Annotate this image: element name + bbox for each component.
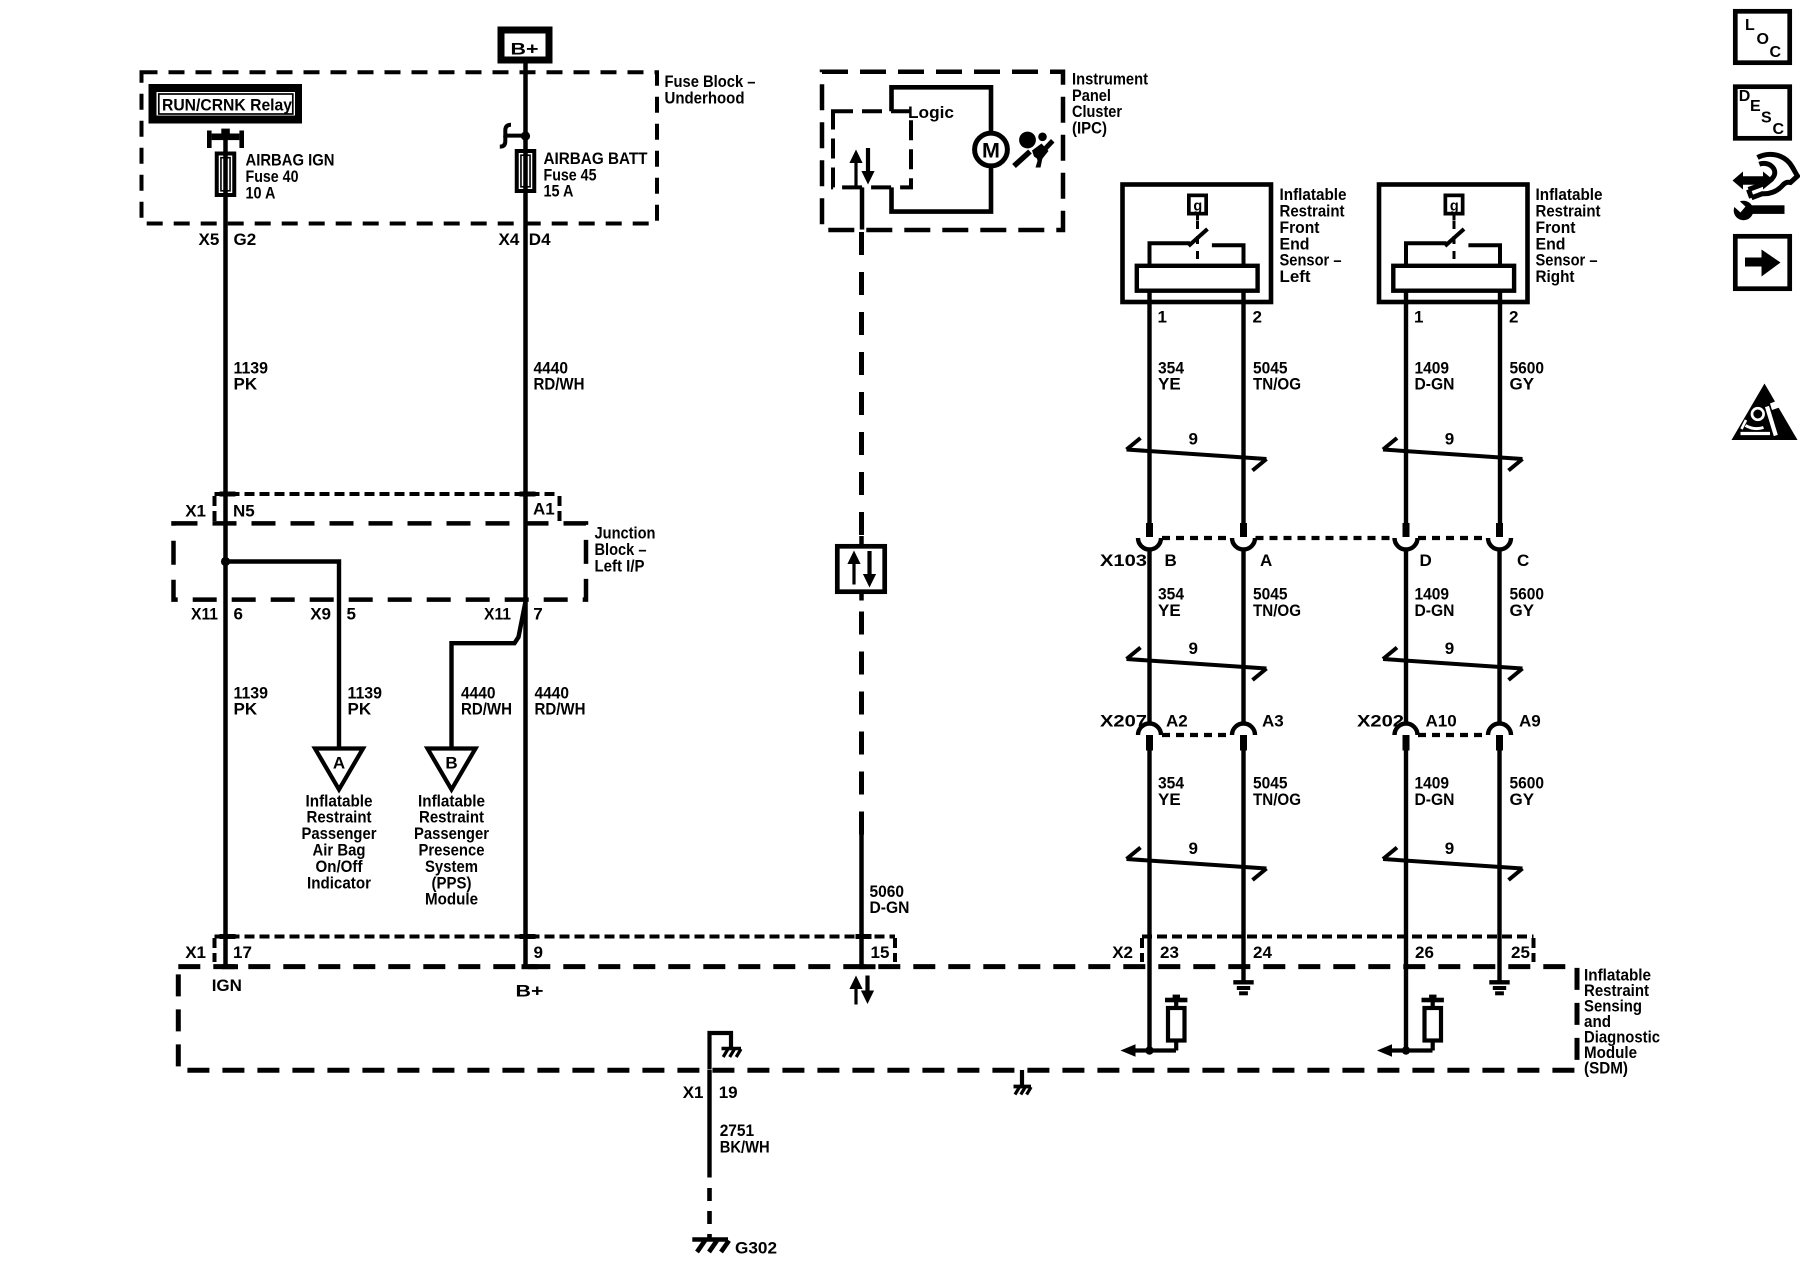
svg-text:26: 26 [1415, 943, 1434, 962]
svg-text:9: 9 [1189, 839, 1198, 858]
svg-text:IGN: IGN [212, 976, 242, 995]
svg-text:O: O [1757, 31, 1769, 48]
svg-text:GY: GY [1510, 601, 1535, 620]
svg-text:9: 9 [1189, 639, 1198, 658]
svg-text:6: 6 [234, 605, 243, 624]
svg-text:G302: G302 [735, 1239, 777, 1258]
svg-text:TN/OG: TN/OG [1253, 375, 1301, 394]
svg-text:X1: X1 [185, 943, 206, 962]
svg-text:D-GN: D-GN [1415, 375, 1455, 394]
svg-text:YE: YE [1158, 601, 1181, 620]
svg-text:A1: A1 [533, 499, 555, 518]
svg-text:X9: X9 [310, 605, 331, 624]
svg-text:X2: X2 [1112, 943, 1133, 962]
svg-text:B: B [1165, 551, 1177, 570]
svg-text:E: E [1750, 98, 1761, 115]
svg-text:1: 1 [1158, 308, 1167, 327]
svg-text:D-GN: D-GN [1415, 790, 1455, 809]
svg-text:YE: YE [1158, 790, 1181, 809]
svg-text:9: 9 [534, 943, 543, 962]
svg-text:D-GN: D-GN [1415, 601, 1455, 620]
svg-text:(SDM): (SDM) [1584, 1059, 1628, 1078]
svg-text:9: 9 [1445, 430, 1454, 449]
svg-text:D: D [1739, 88, 1751, 105]
svg-text:9: 9 [1189, 430, 1198, 449]
svg-text:25: 25 [1511, 943, 1530, 962]
svg-text:X11: X11 [484, 605, 511, 624]
svg-text:2: 2 [1509, 308, 1518, 327]
svg-text:15: 15 [871, 943, 890, 962]
svg-text:L: L [1745, 17, 1755, 34]
svg-text:X5: X5 [199, 230, 220, 249]
svg-text:g: g [1450, 199, 1459, 215]
svg-text:S: S [1761, 110, 1772, 127]
svg-text:PK: PK [234, 375, 258, 394]
svg-text:X1: X1 [185, 501, 206, 520]
svg-text:1: 1 [1414, 308, 1423, 327]
svg-text:15 A: 15 A [544, 182, 574, 201]
svg-text:B+: B+ [511, 40, 539, 59]
svg-text:BK/WH: BK/WH [720, 1138, 770, 1157]
svg-text:Right: Right [1536, 267, 1575, 286]
svg-text:X207: X207 [1100, 712, 1147, 731]
svg-text:A10: A10 [1426, 712, 1457, 731]
svg-text:Logic: Logic [908, 103, 954, 122]
svg-text:GY: GY [1510, 790, 1535, 809]
svg-text:A3: A3 [1262, 712, 1284, 731]
svg-text:X202: X202 [1357, 712, 1404, 731]
svg-text:Left: Left [1280, 267, 1311, 286]
svg-text:TN/OG: TN/OG [1253, 790, 1301, 809]
svg-text:Indicator: Indicator [307, 873, 371, 892]
svg-text:9: 9 [1445, 839, 1454, 858]
svg-text:D-GN: D-GN [870, 898, 910, 917]
svg-text:A9: A9 [1519, 712, 1541, 731]
svg-text:G2: G2 [234, 230, 257, 249]
svg-text:Underhood: Underhood [665, 88, 745, 107]
svg-text:RUN/CRNK Relay: RUN/CRNK Relay [162, 96, 293, 115]
svg-text:Module: Module [425, 890, 478, 909]
svg-text:PK: PK [348, 700, 372, 719]
svg-text:D: D [1420, 551, 1432, 570]
svg-text:7: 7 [533, 605, 542, 624]
svg-text:N5: N5 [233, 501, 255, 520]
svg-text:D4: D4 [529, 230, 551, 249]
svg-text:B+: B+ [516, 981, 544, 1000]
svg-text:Left I/P: Left I/P [595, 556, 645, 575]
svg-text:X11: X11 [191, 605, 218, 624]
svg-text:C: C [1517, 551, 1529, 570]
svg-text:9: 9 [1445, 639, 1454, 658]
svg-text:2: 2 [1253, 308, 1262, 327]
svg-text:C: C [1770, 44, 1782, 61]
svg-text:23: 23 [1160, 943, 1179, 962]
svg-text:RD/WH: RD/WH [461, 700, 512, 719]
svg-text:17: 17 [233, 943, 252, 962]
svg-text:A: A [333, 754, 345, 773]
svg-text:X4: X4 [499, 230, 520, 249]
svg-text:RD/WH: RD/WH [534, 375, 585, 394]
svg-text:RD/WH: RD/WH [535, 700, 586, 719]
svg-text:X1: X1 [683, 1083, 704, 1102]
svg-text:g: g [1193, 199, 1202, 215]
svg-text:19: 19 [719, 1083, 738, 1102]
svg-text:B: B [445, 754, 457, 773]
svg-text:24: 24 [1253, 943, 1272, 962]
svg-text:GY: GY [1510, 375, 1535, 394]
svg-text:5: 5 [347, 605, 356, 624]
svg-text:M: M [982, 138, 1000, 162]
svg-text:(IPC): (IPC) [1072, 119, 1107, 138]
svg-text:C: C [1773, 121, 1785, 138]
svg-text:A: A [1260, 551, 1272, 570]
svg-text:10 A: 10 A [246, 183, 276, 202]
svg-text:TN/OG: TN/OG [1253, 601, 1301, 620]
svg-text:YE: YE [1158, 375, 1181, 394]
svg-text:X103: X103 [1100, 551, 1147, 570]
svg-text:PK: PK [234, 700, 258, 719]
svg-text:A2: A2 [1166, 712, 1188, 731]
